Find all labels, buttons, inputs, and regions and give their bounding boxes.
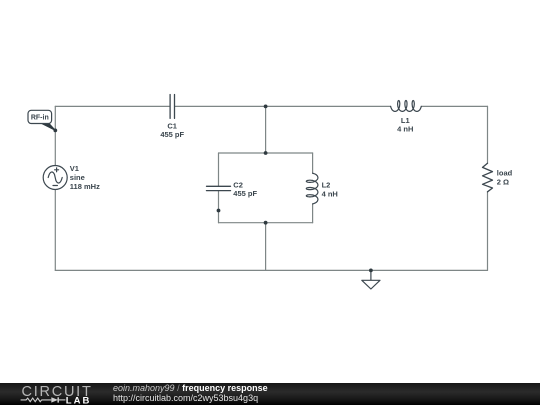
svg-text:L1: L1 (401, 116, 410, 125)
wire left rail: V1 bottom to bottom corner (54, 190, 56, 271)
wire left rail: corner to V1 top (54, 106, 56, 165)
node RF-in flag (28, 110, 57, 132)
inductor L1 (391, 101, 422, 112)
resistor load (483, 163, 493, 192)
footer bar (0, 383, 540, 405)
capacitor C1 (170, 95, 174, 119)
svg-text:sine: sine (70, 173, 85, 182)
svg-text:V1: V1 (70, 164, 79, 173)
wire tank left edge above C2 (218, 153, 220, 186)
svg-text:load: load (497, 169, 513, 178)
wire tank bottom edge (219, 222, 313, 224)
wire bottom rail (55, 269, 487, 271)
wire right rail: load bottom to bottom corner (487, 192, 489, 271)
wire top rail: RF-in node to C1 (55, 105, 170, 107)
svg-text:4 nH: 4 nH (397, 125, 413, 134)
svg-text:2 Ω: 2 Ω (497, 178, 509, 187)
C2 labels (233, 180, 257, 198)
footer line 2: url (113, 394, 258, 403)
wire tank right edge below L2 (312, 204, 314, 223)
wire top rail: C1 to node A (175, 105, 266, 107)
load labels (497, 169, 513, 187)
junction tank bottom (264, 221, 268, 225)
ground (362, 270, 380, 289)
inductor L2 (306, 173, 318, 204)
svg-text:455 pF: 455 pF (233, 189, 257, 198)
junction tank top (264, 151, 268, 155)
junction ground (369, 269, 373, 273)
voltage source V1 (43, 166, 67, 190)
svg-text:455 pF: 455 pF (160, 130, 184, 139)
wire top rail: node A to L1 (266, 105, 391, 107)
wire tank top edge (219, 152, 313, 154)
svg-text:4 nH: 4 nH (322, 189, 338, 198)
wire right rail: corner to load top (487, 106, 489, 163)
svg-text:C2: C2 (233, 180, 243, 189)
junction node A (top) (264, 105, 268, 109)
wire branch: tank bottom to bottom rail (265, 223, 267, 271)
svg-text:RF-in: RF-in (31, 115, 49, 122)
wire tank left edge below C2 (218, 191, 220, 223)
wire tank right edge above L2 (312, 153, 314, 173)
wire branch: node A down to tank top (265, 106, 267, 153)
L2 labels (322, 180, 338, 198)
L1 labels (397, 116, 413, 134)
CircuitLab logo resistor-diode squiggle (21, 397, 66, 402)
svg-text:L2: L2 (322, 180, 331, 189)
C1 labels (160, 121, 184, 139)
svg-text:LAB: LAB (66, 395, 92, 405)
footer line 1: user / title (113, 384, 268, 393)
wire top rail: L1 to right corner (421, 105, 487, 107)
capacitor C2 (207, 186, 231, 190)
V1 labels (70, 164, 100, 191)
junction tank left (217, 209, 221, 213)
svg-text:118 mHz: 118 mHz (70, 182, 100, 191)
